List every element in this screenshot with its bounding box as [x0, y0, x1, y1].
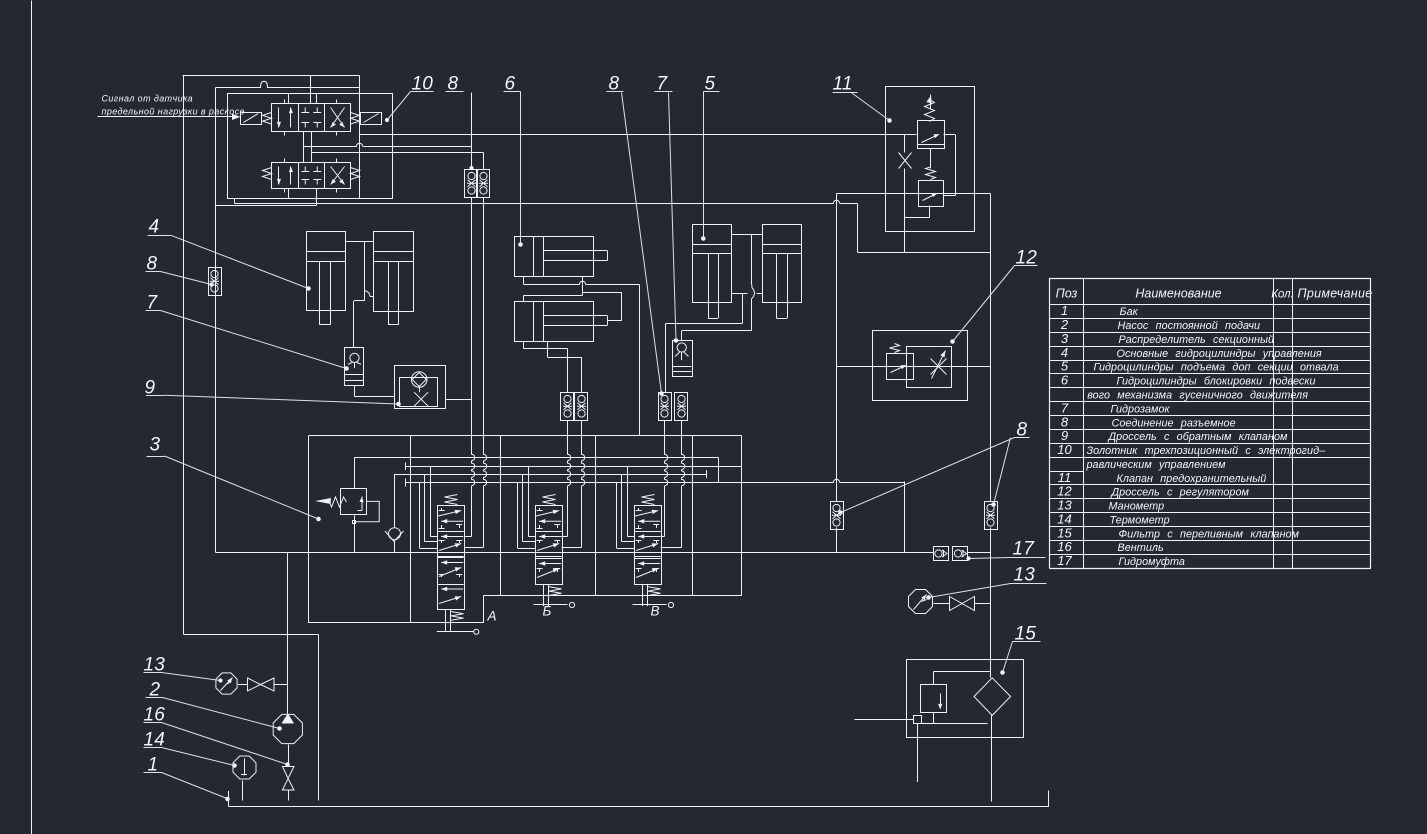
label 17 leader: [967, 557, 1046, 560]
label 16 leader: [144, 723, 290, 767]
manometer 13 right: [909, 590, 933, 614]
throttle check 9 inner: [400, 378, 438, 407]
label 6: [505, 74, 516, 95]
wire pilot links: [304, 132, 312, 163]
svg-text:Гидрозамок: Гидрозамок: [1111, 403, 1171, 415]
label 9: [145, 378, 156, 399]
cylinder 6 top rod: [544, 251, 608, 261]
filter 15 box: [907, 660, 1024, 738]
label 5 leader: [702, 92, 720, 241]
label 10 leader: [385, 92, 433, 122]
svg-text:1: 1: [1061, 303, 1068, 318]
relief 11 wire mid: [930, 149, 932, 169]
label 2 leader: [146, 698, 282, 731]
cylinder 4 left rod: [320, 261, 331, 325]
valve at gauge right: [934, 597, 991, 611]
wire cyl4 mid: [354, 242, 374, 348]
svg-text:5: 5: [705, 74, 716, 95]
svg-text:Гидроцилиндры блокировки подве: Гидроцилиндры блокировки подвески: [1117, 376, 1316, 388]
label 6 leader: [504, 92, 523, 247]
wire cyl6 left port: [523, 276, 525, 284]
svg-text:10: 10: [412, 74, 434, 95]
relief 11 throttle: [899, 153, 912, 169]
wire bus4 drop right: [904, 482, 906, 553]
svg-text:8: 8: [1061, 414, 1069, 429]
label V: [651, 604, 660, 619]
outlet V: [633, 602, 674, 607]
svg-text:9: 9: [145, 378, 156, 399]
svg-text:Б: Б: [543, 604, 552, 619]
enclosure E2 right: [359, 76, 361, 199]
wire cyl6 crossover: [524, 276, 622, 321]
label 16: [144, 705, 166, 726]
distributor box bottom-right: [484, 595, 742, 597]
cylinder 4 right barrel: [374, 232, 414, 312]
coupling 8 e: [831, 502, 844, 530]
cylinder 5 right rod: [776, 254, 787, 319]
wire riser c1: [661, 420, 668, 537]
label 13 left leader: [144, 673, 223, 683]
label 5: [705, 74, 716, 95]
spring left of lower valve: [263, 168, 272, 180]
svg-text:А: А: [487, 609, 497, 624]
label 4 leader: [148, 235, 311, 290]
label 15: [1015, 624, 1037, 645]
coupling 8 c1: [659, 393, 672, 421]
svg-text:12: 12: [1016, 248, 1038, 269]
wire 9 out: [446, 399, 472, 401]
wire pilot A1: [304, 143, 472, 146]
svg-text:6: 6: [505, 74, 516, 95]
label 15 leader: [1001, 642, 1041, 675]
label 8 right leader: [839, 438, 1030, 515]
throttle 12 X arrow: [931, 351, 947, 379]
wire stub P supply: [310, 76, 312, 104]
label 12 leader: [951, 266, 1038, 344]
valve U10 lower body: [272, 163, 351, 189]
svg-text:8: 8: [448, 74, 459, 95]
svg-text:16: 16: [1057, 539, 1072, 554]
enclosure E2 left/long vertical: [215, 88, 217, 553]
coupling 8 a1: [465, 170, 478, 198]
frame left border line: [31, 1, 33, 834]
label 3 leader: [147, 456, 321, 521]
label 8 mid: [609, 74, 620, 95]
label 13 right: [1014, 565, 1036, 586]
svg-text:8: 8: [609, 74, 620, 95]
wire stubs valve top: [289, 94, 317, 104]
spring right of valve 10: [351, 113, 360, 125]
svg-text:13: 13: [1057, 498, 1072, 513]
svg-text:Фильтр с переливным клапаном: Фильтр с переливным клапаном: [1119, 528, 1300, 540]
svg-text:15: 15: [1057, 525, 1072, 540]
throttle X in 9: [414, 392, 428, 406]
label 17: [1013, 539, 1036, 560]
label 11 leader: [833, 92, 892, 122]
wire cyl4 top link: [345, 241, 373, 243]
relief3 bypass loop: [356, 501, 379, 521]
svg-text:Золотник трехпозиционный с эл: Золотник трехпозиционный с электрогид–: [1087, 445, 1327, 457]
distributor divider 1: [410, 436, 412, 624]
pilot wires stack B left: [518, 466, 536, 548]
table rows: [1057, 303, 1338, 568]
relief 11 spring top: [925, 95, 935, 122]
label 11: [833, 74, 853, 95]
svg-text:Вентиль: Вентиль: [1118, 542, 1165, 554]
svg-text:Распределитель секционный: Распределитель секционный: [1119, 334, 1275, 346]
distributor divider 4: [692, 436, 694, 596]
relief 11 valve lower: [919, 181, 944, 207]
bus line 1: [354, 458, 718, 483]
svg-text:5: 5: [1061, 359, 1069, 374]
svg-text:7: 7: [657, 74, 669, 95]
cylinder 4 right rod: [388, 261, 399, 325]
solenoid right of valve 10: [361, 113, 382, 125]
solenoid left of valve 10: [241, 113, 262, 125]
svg-text:13: 13: [1014, 565, 1036, 586]
svg-text:Примечание: Примечание: [1298, 287, 1373, 301]
svg-text:Основные гидроцилиндры управле: Основные гидроцилиндры управления: [1117, 348, 1322, 360]
label A: [487, 609, 497, 624]
svg-text:3: 3: [1061, 331, 1069, 346]
wire riser b2: [562, 420, 585, 548]
label 13 right leader: [927, 584, 1047, 600]
valve U10 upper body: [272, 104, 351, 132]
pilot wires stack A left: [420, 466, 438, 548]
wire filter down: [917, 724, 919, 783]
svg-text:Гидромуфта: Гидромуфта: [1119, 556, 1185, 568]
return line T: [216, 552, 991, 554]
svg-text:3: 3: [150, 435, 161, 456]
wire cyl5 tap down: [666, 294, 743, 393]
relief 11 box: [886, 87, 975, 232]
relief valve in 3: [315, 489, 367, 515]
label B: [543, 604, 552, 619]
cylinder 6 bottom rod: [544, 316, 608, 326]
wire x836 riser: [836, 194, 838, 502]
outlet B: [534, 602, 575, 607]
wire pump up: [287, 553, 289, 714]
tank line: [229, 791, 1050, 807]
enclosure E1: [228, 94, 393, 199]
filter bypass valve: [921, 685, 947, 724]
label 12: [1016, 248, 1038, 269]
wire stubs valve bottom: [289, 189, 317, 206]
throttle 12 inner box: [907, 347, 952, 388]
wire cyl5 junction: [732, 285, 762, 299]
svg-text:6: 6: [1061, 373, 1069, 388]
svg-text:Клапан предохранительный: Клапан предохранительный: [1117, 473, 1267, 485]
valve stack A: [437, 495, 464, 631]
svg-text:10: 10: [1057, 442, 1072, 457]
wire y252: [858, 252, 991, 254]
wire y193: [837, 193, 991, 195]
drain elbow: [184, 634, 319, 800]
label 7 right: [657, 74, 669, 95]
bus line 4 long: [406, 479, 905, 487]
svg-text:Гидроцилиндры подъема доп секц: Гидроцилиндры подъема доп секции отвала: [1094, 362, 1339, 374]
wire riser a1: [464, 197, 475, 537]
svg-text:предельной нагрузки в раскосе: предельной нагрузки в раскосе: [102, 107, 245, 117]
wire cyl5 to hydrolock: [682, 299, 752, 341]
label 2: [149, 680, 161, 701]
wire leader8a vertical: [446, 92, 474, 170]
wire y366 through 12: [837, 366, 991, 368]
throttle 12 box: [873, 331, 968, 401]
svg-text:4: 4: [1061, 345, 1068, 360]
relief 11 wire left: [905, 135, 919, 218]
shutoff 16: [283, 767, 295, 791]
svg-text:9: 9: [1061, 428, 1068, 443]
coupling 8 b2: [575, 393, 588, 421]
table grid: [1049, 278, 1371, 569]
label 8 left leader: [146, 272, 214, 287]
valve at gauge left: [238, 678, 288, 691]
pilot wires stack V left: [617, 466, 635, 548]
wire pilot A2: [312, 153, 484, 170]
wire riser b1: [562, 420, 571, 537]
label 10: [412, 74, 434, 95]
thermometer 14: [233, 756, 256, 779]
cylinder 5 left barrel: [693, 225, 732, 303]
relief 11 valve upper: [918, 121, 945, 149]
throttle 12 spring: [890, 344, 900, 353]
svg-text:Термометр: Термометр: [1110, 514, 1170, 526]
svg-text:Кол.: Кол.: [1271, 289, 1294, 301]
svg-text:Насос постоянной подачи: Насос постоянной подачи: [1118, 320, 1261, 332]
svg-text:Манометр: Манометр: [1109, 501, 1165, 513]
svg-text:Дроссель с обратным клапаном: Дроссель с обратным клапаном: [1108, 431, 1289, 443]
svg-text:11: 11: [1058, 470, 1072, 485]
svg-text:11: 11: [833, 74, 853, 95]
manometer 13 left: [216, 673, 237, 694]
spring right of lower valve: [351, 168, 360, 180]
throttle 12 compensator: [887, 354, 914, 380]
cylinder 6 bottom barrel: [515, 302, 594, 342]
wire filter main down: [991, 715, 993, 801]
bus line 2: [406, 463, 742, 471]
wire left vertical: [183, 76, 185, 635]
relief 11 wire out: [905, 206, 930, 253]
svg-text:7: 7: [1061, 400, 1069, 415]
distributor box top: [309, 435, 742, 437]
label 1 leader: [144, 773, 230, 801]
label 13 left: [144, 655, 166, 676]
svg-text:17: 17: [1057, 553, 1072, 568]
check valve in 9: [411, 372, 427, 393]
wire riser c2: [661, 420, 685, 548]
label 9 leader: [146, 395, 400, 406]
label 14 leader: [144, 748, 237, 768]
wire thermo to tank: [242, 781, 244, 801]
cylinder 5 left rod: [708, 254, 718, 319]
wire filter tap left: [854, 719, 913, 721]
relief 11 spring mid: [926, 167, 936, 180]
distributor box bottom-left: [309, 596, 484, 624]
label 8 top-a: [448, 74, 459, 95]
hydrolock 7 left: [345, 348, 365, 386]
pump 2: [273, 713, 302, 743]
svg-text:8: 8: [1017, 420, 1028, 441]
spring left of valve 10: [263, 113, 272, 125]
label 8 mid leader: [607, 92, 664, 396]
label 1: [148, 755, 159, 776]
svg-text:Соединение разъемное: Соединение разъемное: [1112, 417, 1236, 429]
svg-text:вого механизма гусеничного дви: вого механизма гусеничного движителя: [1087, 389, 1308, 401]
svg-text:2: 2: [1060, 317, 1069, 332]
relief 11 wire right: [944, 135, 956, 196]
wire filter top: [990, 604, 992, 678]
svg-text:равлическим управлением: равлическим управлением: [1086, 459, 1227, 471]
svg-text:Поз: Поз: [1056, 287, 1078, 301]
distributor box right: [741, 436, 743, 596]
svg-text:4: 4: [149, 217, 160, 238]
wire filter under: [922, 723, 988, 725]
wire pump down: [288, 745, 290, 767]
cylinder 5 right barrel: [762, 225, 802, 303]
coupling 8 b1: [561, 393, 574, 421]
wire x836 lower: [836, 528, 838, 553]
svg-text:14: 14: [1057, 511, 1071, 526]
wire x990 main: [990, 194, 992, 660]
cylinder 4 left barrel: [306, 232, 346, 311]
valve stack V: [634, 495, 661, 607]
wire cyl6 to coupling b1: [524, 342, 568, 393]
bus line 3: [394, 470, 707, 478]
filter node square: [914, 716, 922, 724]
signal underline leader with arrow: [98, 114, 241, 120]
svg-text:Наименование: Наименование: [1135, 287, 1221, 301]
wire riser to box top: [639, 284, 641, 435]
coupling 8 f: [985, 502, 998, 530]
wire top: [183, 75, 360, 77]
wire relief3 up: [354, 458, 356, 489]
signal text line 2: [102, 107, 245, 117]
wire relief3 down: [353, 515, 356, 552]
wire long mid horizontal: [235, 199, 858, 204]
distributor divider 3: [595, 436, 597, 596]
wire 16 to tank: [288, 790, 290, 801]
coupling 8 c2: [675, 393, 688, 421]
wire riser a2: [464, 197, 487, 548]
wire cyl5 top link: [732, 235, 762, 285]
wire x857 drop: [857, 204, 859, 253]
coupling 17 a: [934, 547, 949, 561]
label 7 left: [147, 293, 159, 314]
check valve in 3: [385, 474, 404, 552]
distributor divider 2: [500, 436, 502, 596]
wire main to relief valve: [360, 134, 917, 136]
wire hydrolock7L out: [355, 385, 395, 397]
coupling 17 b: [953, 547, 968, 561]
wire cyl6 to coupling b2: [548, 342, 582, 393]
label 3: [150, 435, 161, 456]
svg-text:Дроссель с регулятором: Дроссель с регулятором: [1111, 487, 1250, 499]
table header: [1056, 287, 1373, 301]
wire cyl6 manifold: [524, 281, 640, 284]
svg-text:7: 7: [147, 293, 159, 314]
svg-text:8: 8: [147, 254, 158, 275]
throttle check 9 outer: [395, 366, 446, 409]
valve10 port stubs: [285, 100, 337, 193]
hydrolock 7 right: [672, 341, 693, 377]
svg-text:Сигнал от датчика: Сигнал от датчика: [102, 94, 194, 104]
coupling 8 d: [209, 268, 222, 296]
svg-text:12: 12: [1057, 484, 1072, 499]
cylinder 6 top barrel: [515, 236, 594, 276]
svg-text:Бак: Бак: [1120, 306, 1139, 318]
svg-text:17: 17: [1013, 539, 1036, 560]
signal text line 1: [102, 94, 194, 104]
label 7 left leader: [146, 311, 349, 371]
label 14: [144, 730, 166, 751]
label 8 right: [1017, 420, 1028, 441]
enclosure E2 bottom: [216, 205, 317, 207]
svg-text:15: 15: [1015, 624, 1037, 645]
svg-text:В: В: [651, 604, 660, 619]
outlet A: [437, 629, 479, 634]
label 7 right leader: [655, 92, 678, 343]
distributor box left: [308, 436, 310, 624]
valve stack B: [535, 495, 562, 607]
label 8 left: [147, 254, 158, 275]
enclosure E2 top with break loop: [216, 81, 360, 87]
coupling 8 a2: [477, 170, 490, 198]
filter bypass wire: [934, 672, 991, 685]
filter element: [974, 678, 1011, 716]
label 4: [149, 217, 160, 238]
